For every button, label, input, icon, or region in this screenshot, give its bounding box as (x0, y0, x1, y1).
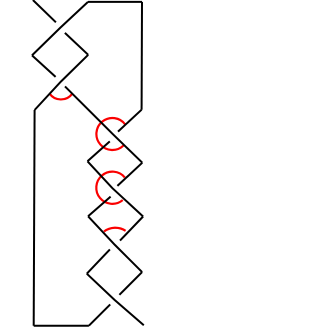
wire: under strand entering top edge, stub into crossing C1 gap (33, 0, 56, 22)
red angle arc R1 at crossing C2 (lower sector) (49, 93, 72, 99)
wire: right vertical T1 down to corner D (141, 2, 143, 110)
wire: under strand stub after C2 gap to left vertex V_L1 (32, 55, 56, 77)
wire: over strand V_b through crossing C3 continuing to C2 gap edge (65, 86, 142, 162)
wire: under strand stub from D into crossing C3 gap (118, 110, 142, 132)
wire: over strand V_L3 through crossing C6 to loose end (87, 274, 144, 326)
wire: over strand V_R3 through crossing C5 to left vertex V_c (88, 216, 142, 272)
wire: left vertical side A to bottom-left corner (33, 110, 36, 326)
wire: under strand resuming after C6 to right vertex V_R3 (119, 272, 142, 295)
wire: under strand resuming after C4 to right vertex V_b (117, 163, 142, 186)
wire: under strand resuming after C5 to left vertex V_L3 (87, 249, 110, 273)
red angle arc R3 at crossing C4 (reflex, gap on east side) (96, 172, 124, 204)
wire: bottom horizontal to corner B (34, 325, 89, 327)
red angle arc R2 at crossing C3 (reflex, gap on east side) (96, 118, 125, 150)
wire: under strand stub V_d into crossing C5 gap (120, 217, 143, 241)
wire: over strand V_L1 through crossing C1 to top corner T0 (32, 2, 88, 56)
wire: under strand stub V_c into crossing C4 gap (88, 197, 111, 217)
wire: under strand resuming after C3 to left vertex V_a (88, 141, 110, 161)
wire: top horizontal T0 to T1 (88, 1, 142, 3)
wire: under strand resuming after C1 gap to right vertex V_R1 (65, 33, 88, 55)
wire: under strand stub from corner B into crossing C6 gap (89, 304, 110, 325)
wire: over strand V_R1 through crossing C2 to corner A (35, 55, 89, 110)
red angle arc R4 at crossing C5 (upper sector) (104, 228, 126, 232)
wire: over strand V_a through crossing C4 to right vertex V_d (88, 161, 144, 216)
